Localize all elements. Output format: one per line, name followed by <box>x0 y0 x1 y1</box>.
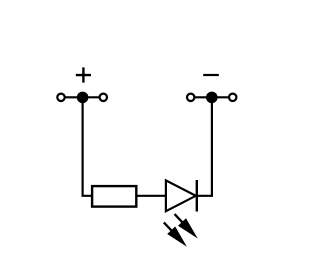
minus sign (negative supply marker) <box>203 74 219 76</box>
terminal contact (right terminal, right open circle) <box>229 94 236 101</box>
terminal contact (left terminal, left open circle) <box>57 94 64 101</box>
LED light emission arrow (right) <box>175 214 198 238</box>
terminal contact (left terminal, right open circle) <box>100 94 107 101</box>
node (left terminal junction, filled) <box>77 92 89 104</box>
terminal contact (right terminal, left open circle) <box>187 94 194 101</box>
resistor R1 <box>92 186 136 207</box>
LED D1 cathode bar <box>196 180 198 212</box>
wire (left vertical drop and bend to resistor) <box>83 97 93 195</box>
wire (right terminal crossbar) <box>191 96 233 98</box>
LED D1 (diode triangle, anode) <box>166 180 196 211</box>
LED light emission arrow (left) <box>164 222 187 246</box>
wire (left terminal crossbar) <box>61 96 103 98</box>
node (right terminal junction, filled) <box>206 92 218 104</box>
wire (cathode to right bend and vertical rise) <box>197 97 212 195</box>
plus sign (positive supply marker) <box>76 67 91 82</box>
wire (resistor to LED anode) <box>136 195 166 197</box>
